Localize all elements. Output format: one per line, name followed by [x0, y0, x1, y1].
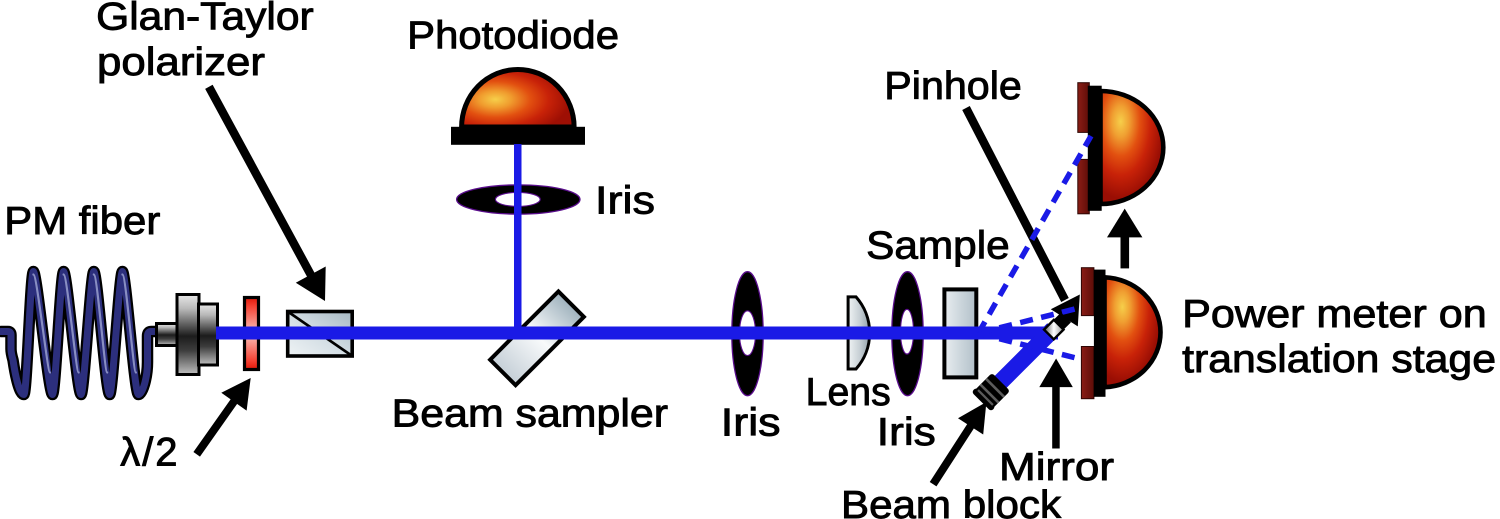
svg-text:Power meter on: Power meter on [1182, 293, 1487, 336]
svg-text:Glan-Taylor: Glan-Taylor [96, 0, 314, 39]
svg-text:PM fiber: PM fiber [4, 200, 160, 243]
arrow to Glan-Taylor polarizer [209, 87, 326, 301]
iris 2 on beam [892, 272, 923, 396]
svg-text:λ/2: λ/2 [120, 431, 179, 475]
svg-text:Pinhole: Pinhole [884, 65, 1022, 108]
dashed beam to bottom power meter lower [979, 334, 1083, 360]
beam sampler [490, 291, 584, 385]
svg-text:Iris: Iris [721, 402, 781, 445]
photodiode base [451, 127, 585, 145]
main horizontal beam [216, 327, 1058, 340]
arrow to pinhole [966, 108, 1080, 326]
diagonal beam mirror to beam block [983, 323, 1059, 400]
svg-text:polarizer: polarizer [97, 41, 265, 84]
PM fiber coil [1, 272, 165, 395]
Glan-Taylor polarizer cube [288, 312, 353, 357]
power meter bottom: black mount bar [1094, 270, 1106, 397]
photodiode dome [462, 69, 574, 127]
svg-text:translation stage: translation stage [1182, 338, 1496, 381]
svg-text:Iris: Iris [595, 180, 655, 223]
beam block [971, 372, 1010, 411]
power meter bottom: dome [1105, 277, 1161, 387]
sample [944, 289, 976, 377]
svg-text:Lens: Lens [806, 371, 891, 414]
arrow to beam block [933, 402, 986, 484]
arrow to lambda/2 [197, 378, 251, 454]
vertical beam to photodiode [514, 144, 522, 334]
svg-text:Beam sampler: Beam sampler [392, 393, 668, 436]
svg-text:Iris: Iris [877, 411, 936, 454]
mirror [1044, 312, 1071, 339]
power meter top: black mount bar [1088, 86, 1102, 211]
dashed beam to bottom power meter upper (pinhole) [979, 308, 1082, 334]
arrow to mirror [1039, 359, 1073, 449]
dashed beam to top power meter [979, 136, 1092, 333]
lens [848, 297, 870, 369]
svg-text:Mirror: Mirror [999, 446, 1114, 489]
power meter top: dome [1101, 91, 1164, 204]
iris 1 on beam [732, 272, 763, 396]
lambda/2 waveplate [245, 298, 259, 370]
svg-text:Sample: Sample [866, 224, 1010, 267]
svg-text:Photodiode: Photodiode [407, 15, 619, 58]
iris (horizontal, under photodiode) [457, 185, 580, 214]
svg-text:Beam block: Beam block [841, 484, 1062, 519]
power meter bottom: pinhole plate segments [1081, 268, 1160, 399]
up arrow between power meters [1107, 209, 1142, 269]
power meter top: pinhole plate segments [1078, 83, 1164, 214]
fiber collimator connector [157, 295, 218, 375]
